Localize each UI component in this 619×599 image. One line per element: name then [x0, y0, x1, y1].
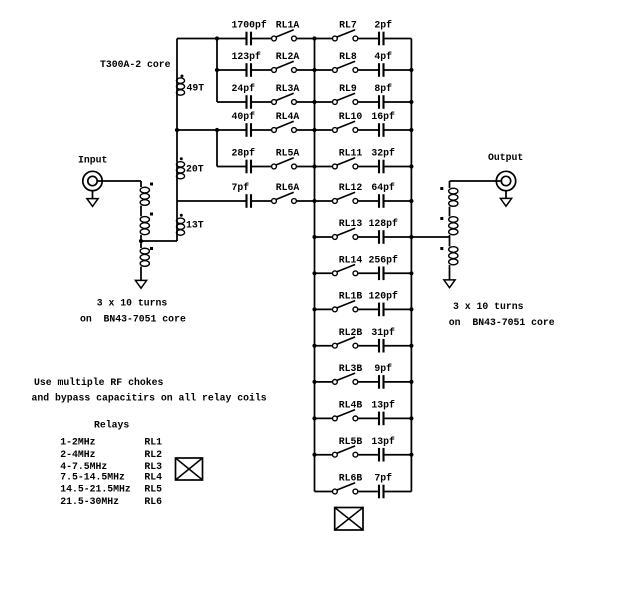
- svg-text:Input: Input: [78, 154, 107, 165]
- svg-text:2-4MHz: 2-4MHz: [60, 449, 95, 460]
- svg-text:RL5: RL5: [144, 484, 162, 495]
- svg-text:13pf: 13pf: [371, 436, 395, 447]
- svg-text:7pf: 7pf: [232, 182, 250, 193]
- svg-text:13pf: 13pf: [371, 400, 395, 411]
- svg-text:RL11: RL11: [339, 148, 363, 159]
- svg-text:7pf: 7pf: [374, 473, 392, 484]
- svg-text:RL2: RL2: [144, 449, 162, 460]
- svg-text:1700pf: 1700pf: [232, 20, 267, 31]
- svg-text:on BN43-7051 core: on BN43-7051 core: [80, 313, 186, 324]
- svg-text:RL4: RL4: [144, 471, 162, 482]
- svg-text:T300A-2 core: T300A-2 core: [100, 59, 171, 70]
- svg-text:and bypass capacitirs on all r: and bypass capacitirs on all relay coils: [32, 393, 267, 404]
- svg-text:RL2A: RL2A: [276, 51, 300, 62]
- svg-text:123pf: 123pf: [232, 51, 262, 62]
- svg-text:RL1B: RL1B: [339, 291, 363, 302]
- svg-text:31pf: 31pf: [371, 327, 395, 338]
- svg-text:RL6B: RL6B: [339, 473, 363, 484]
- svg-text:RL8: RL8: [339, 51, 357, 62]
- svg-text:4pf: 4pf: [374, 51, 392, 62]
- svg-text:RL4A: RL4A: [276, 111, 300, 122]
- svg-text:49T: 49T: [187, 82, 205, 93]
- svg-text:120pf: 120pf: [368, 291, 398, 302]
- svg-text:RL2B: RL2B: [339, 327, 363, 338]
- svg-text:RL9: RL9: [339, 83, 357, 94]
- svg-text:RL3B: RL3B: [339, 363, 363, 374]
- svg-text:on BN43-7051 core: on BN43-7051 core: [449, 317, 555, 328]
- svg-text:256pf: 256pf: [368, 254, 398, 265]
- svg-text:14.5-21.5MHz: 14.5-21.5MHz: [60, 484, 131, 495]
- svg-text:RL5A: RL5A: [276, 148, 300, 159]
- svg-text:2pf: 2pf: [374, 20, 392, 31]
- svg-text:24pf: 24pf: [232, 83, 256, 94]
- svg-text:Relays: Relays: [94, 419, 129, 430]
- svg-text:RL1A: RL1A: [276, 20, 300, 31]
- svg-text:RL3A: RL3A: [276, 83, 300, 94]
- svg-text:RL14: RL14: [339, 254, 363, 265]
- svg-text:20T: 20T: [186, 163, 204, 174]
- svg-text:128pf: 128pf: [368, 218, 398, 229]
- svg-text:3 x 10 turns: 3 x 10 turns: [453, 301, 524, 312]
- svg-text:64pf: 64pf: [371, 182, 395, 193]
- svg-text:RL6A: RL6A: [276, 182, 300, 193]
- svg-text:RL10: RL10: [339, 111, 363, 122]
- svg-text:21.5-30MHz: 21.5-30MHz: [60, 496, 119, 507]
- svg-text:13T: 13T: [186, 219, 204, 230]
- svg-text:Output: Output: [488, 152, 523, 163]
- svg-text:Use multiple RF chokes: Use multiple RF chokes: [34, 377, 163, 388]
- svg-text:RL4B: RL4B: [339, 400, 363, 411]
- svg-text:16pf: 16pf: [371, 111, 395, 122]
- svg-text:1-2MHz: 1-2MHz: [60, 436, 95, 447]
- svg-text:8pf: 8pf: [374, 83, 392, 94]
- svg-text:RL1: RL1: [144, 436, 162, 447]
- svg-text:28pf: 28pf: [232, 148, 256, 159]
- svg-text:RL7: RL7: [339, 20, 357, 31]
- svg-text:32pf: 32pf: [371, 148, 395, 159]
- svg-text:RL13: RL13: [339, 218, 363, 229]
- svg-text:9pf: 9pf: [374, 363, 392, 374]
- svg-text:RL5B: RL5B: [339, 436, 363, 447]
- svg-text:RL6: RL6: [144, 496, 162, 507]
- svg-text:40pf: 40pf: [232, 111, 256, 122]
- svg-text:3 x 10 turns: 3 x 10 turns: [97, 298, 168, 309]
- svg-text:RL12: RL12: [339, 182, 363, 193]
- svg-text:7.5-14.5MHz: 7.5-14.5MHz: [60, 471, 125, 482]
